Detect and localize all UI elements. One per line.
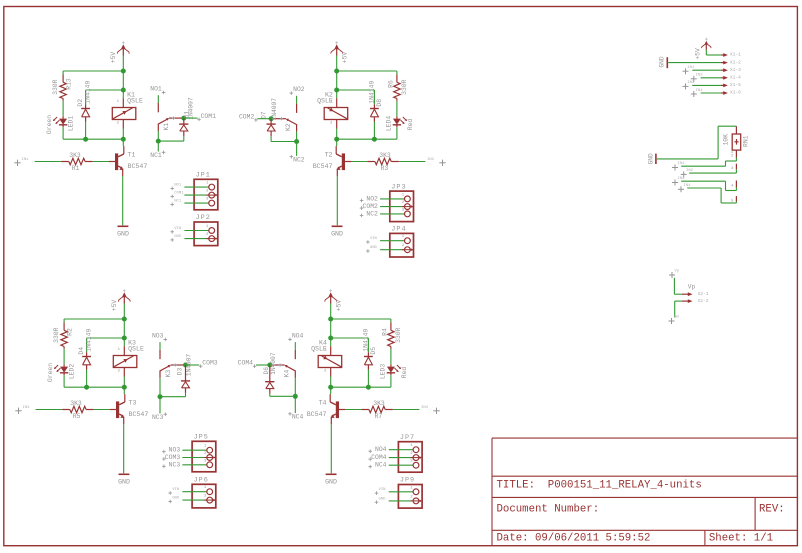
resistor R4 330R bbox=[382, 319, 403, 347]
svg-text:NC1: NC1 bbox=[174, 200, 182, 204]
svg-text:R5: R5 bbox=[73, 413, 81, 420]
svg-text:COM3: COM3 bbox=[165, 454, 181, 461]
svg-text:Red: Red bbox=[407, 119, 414, 131]
svg-text:IN2: IN2 bbox=[427, 158, 435, 162]
wire resistor to LED bbox=[390, 347, 392, 367]
svg-text:330R: 330R bbox=[401, 79, 408, 95]
wire resistor to LED bbox=[62, 99, 64, 119]
svg-text:R6: R6 bbox=[388, 80, 395, 88]
svg-text:+5V: +5V bbox=[336, 300, 343, 312]
svg-text:R7: R7 bbox=[375, 413, 383, 420]
junction bbox=[334, 137, 339, 142]
svg-text:1N4149: 1N4149 bbox=[368, 81, 375, 104]
svg-text:LED1: LED1 bbox=[67, 116, 74, 132]
svg-text:GND: GND bbox=[174, 235, 182, 239]
svg-text:NC2: NC2 bbox=[366, 210, 378, 217]
diode D3 1N4007 bbox=[176, 354, 192, 397]
junction bbox=[328, 385, 333, 390]
junction bbox=[121, 69, 126, 74]
svg-text:JP7: JP7 bbox=[400, 434, 415, 442]
wire coil to collector junction bbox=[330, 377, 332, 388]
wire collector bbox=[123, 387, 126, 402]
pin GND (X2) bbox=[669, 316, 680, 325]
junction bbox=[183, 363, 188, 368]
RN1 pin 3 bbox=[731, 164, 736, 171]
svg-text:330R: 330R bbox=[53, 327, 60, 343]
diode D4 1N4149 bbox=[78, 329, 93, 388]
pin 2 of JP4 bbox=[366, 244, 413, 253]
wire diode top bbox=[331, 337, 369, 339]
svg-text:R3: R3 bbox=[381, 165, 389, 172]
junction bbox=[328, 336, 333, 341]
wire NC lead bbox=[296, 125, 298, 156]
svg-text:GND: GND bbox=[118, 479, 130, 486]
wire resistor to LED bbox=[396, 99, 398, 119]
pin IN1 (X1) bbox=[683, 66, 721, 74]
relay coil K1 QSLE bbox=[112, 92, 143, 129]
wire COM bbox=[256, 364, 270, 366]
pin NC2 bbox=[290, 155, 305, 164]
svg-text:3K3: 3K3 bbox=[69, 152, 81, 159]
pin IN2 (X1) bbox=[691, 74, 721, 82]
svg-text:NC3: NC3 bbox=[152, 414, 164, 421]
svg-text:GND: GND bbox=[379, 497, 387, 501]
pin IN3 (RN1) bbox=[672, 177, 736, 191]
junction bbox=[158, 394, 163, 399]
wire NC lead bbox=[157, 124, 159, 151]
LED LED4 (Red) bbox=[386, 116, 415, 132]
svg-text:QSLE: QSLE bbox=[127, 98, 143, 105]
LED LED3 (Red) bbox=[380, 364, 409, 380]
diode D6 1N4007 bbox=[263, 352, 277, 396]
svg-text:COM4: COM4 bbox=[238, 360, 254, 367]
connector JP9 bbox=[398, 477, 422, 508]
pin 2 of JP1 bbox=[170, 190, 217, 199]
pin 1 of JP2 bbox=[170, 225, 214, 234]
svg-text:X2-2: X2-2 bbox=[698, 298, 709, 304]
relay coil K3 QSLE bbox=[113, 340, 144, 377]
svg-text:NO1: NO1 bbox=[150, 86, 162, 93]
pin IN4 bbox=[421, 406, 440, 414]
wire contact bottom bbox=[160, 396, 186, 398]
pin NO3 bbox=[152, 332, 167, 341]
svg-text:D8: D8 bbox=[376, 99, 383, 107]
wire top horizontal bbox=[64, 318, 124, 320]
svg-text:NO2: NO2 bbox=[293, 86, 305, 93]
svg-text:X1-5: X1-5 bbox=[730, 82, 741, 88]
ground (RN1) bbox=[647, 153, 656, 164]
transistor T3 BC547 bbox=[116, 400, 148, 418]
svg-text:D6: D6 bbox=[263, 367, 270, 375]
transistor T1 BC547 bbox=[115, 152, 147, 170]
svg-text:IN3: IN3 bbox=[687, 81, 695, 85]
svg-text:T2: T2 bbox=[325, 152, 333, 159]
wire +5V to junction bbox=[122, 56, 124, 72]
svg-text:3K3: 3K3 bbox=[379, 152, 391, 159]
junction bbox=[121, 137, 126, 142]
svg-text:T4: T4 bbox=[319, 400, 327, 407]
diode D2 1N4149 bbox=[77, 81, 92, 140]
svg-text:JP5: JP5 bbox=[194, 434, 209, 442]
svg-text:1N4007: 1N4007 bbox=[187, 97, 194, 120]
pin NO2 of JP3 bbox=[360, 193, 411, 202]
svg-text:NC1: NC1 bbox=[150, 152, 162, 159]
connector JP3 bbox=[390, 183, 414, 221]
connector JP6 bbox=[192, 477, 216, 508]
wire COM bbox=[186, 364, 200, 366]
transistor T4 BC547 bbox=[307, 400, 339, 418]
pin COM2 bbox=[239, 113, 258, 121]
svg-text:NC2: NC2 bbox=[293, 157, 305, 164]
wire GND to X1-2 bbox=[668, 62, 721, 64]
wire coil to collector junction bbox=[123, 377, 125, 388]
wire LED to bottom rail bbox=[390, 373, 392, 387]
pin X1-3 flag bbox=[721, 67, 741, 73]
wire collector bbox=[329, 387, 332, 402]
junction bbox=[267, 363, 272, 368]
pin X1-2 flag bbox=[721, 59, 741, 65]
+5V supply (unit 4) bbox=[325, 289, 343, 311]
svg-text:Sheet: 1/1: Sheet: 1/1 bbox=[709, 533, 773, 545]
junction bbox=[121, 88, 126, 93]
svg-text:330R: 330R bbox=[52, 79, 59, 95]
wire bottom rail bbox=[331, 386, 391, 388]
junction bbox=[334, 88, 339, 93]
pin NC4 bbox=[288, 412, 303, 421]
pin 1 of JP9 bbox=[375, 486, 419, 495]
wire diode top bbox=[337, 89, 375, 91]
ground (X1) bbox=[659, 56, 668, 68]
svg-text:1N4007: 1N4007 bbox=[271, 98, 278, 121]
junction bbox=[294, 139, 299, 144]
wire base bbox=[339, 409, 361, 411]
svg-text:X1-1: X1-1 bbox=[730, 52, 741, 58]
svg-text:D3: D3 bbox=[176, 368, 183, 376]
relay contact K4 bbox=[270, 342, 296, 377]
wire emitter down bbox=[122, 169, 124, 226]
pin 2 of JP9 bbox=[375, 495, 422, 504]
svg-text:NC4: NC4 bbox=[292, 414, 304, 421]
svg-text:JP4: JP4 bbox=[391, 226, 406, 234]
svg-text:1N4149: 1N4149 bbox=[362, 329, 369, 352]
pin Vp bbox=[669, 270, 680, 279]
wire COM bbox=[257, 118, 271, 120]
svg-text:+5V: +5V bbox=[694, 48, 701, 60]
diode D5 1N4149 bbox=[362, 329, 377, 388]
pin 1 of JP1 bbox=[170, 182, 214, 191]
svg-text:Green: Green bbox=[47, 363, 54, 382]
connector JP2 bbox=[194, 214, 218, 245]
svg-text:IN1: IN1 bbox=[22, 158, 30, 162]
svg-text:JP2: JP2 bbox=[196, 214, 211, 222]
+5V supply (unit 2) bbox=[331, 41, 349, 63]
svg-text:10K: 10K bbox=[722, 134, 729, 146]
svg-text:R4: R4 bbox=[382, 328, 389, 336]
ground bbox=[117, 226, 129, 237]
pin IN2 bbox=[427, 158, 446, 166]
wire +5V to junction bbox=[123, 304, 125, 320]
wire COM bbox=[184, 117, 198, 119]
pin NO3 of JP5 bbox=[162, 445, 213, 454]
svg-text:BC547: BC547 bbox=[313, 163, 333, 170]
svg-text:BC547: BC547 bbox=[307, 411, 327, 418]
wire contact bottom bbox=[158, 140, 184, 142]
svg-text:LED4: LED4 bbox=[386, 116, 393, 132]
pin IN3 bbox=[15, 406, 30, 414]
+5V supply (unit 1) bbox=[110, 41, 130, 63]
svg-text:VIN: VIN bbox=[370, 237, 378, 241]
transistor T2 BC547 bbox=[313, 152, 345, 170]
relay contact K2 bbox=[271, 96, 297, 131]
svg-text:NC3: NC3 bbox=[169, 461, 181, 468]
svg-text:RN1: RN1 bbox=[743, 135, 750, 147]
svg-text:QSLE: QSLE bbox=[128, 346, 144, 353]
junction bbox=[122, 336, 127, 341]
svg-text:Green: Green bbox=[46, 115, 53, 134]
svg-text:K1: K1 bbox=[163, 123, 170, 131]
wire coil to collector junction bbox=[122, 129, 124, 140]
pin NO4 of JP7 bbox=[368, 444, 419, 453]
resistor R5 3K3 bbox=[36, 400, 94, 420]
svg-text:1N4149: 1N4149 bbox=[86, 329, 93, 352]
pin X2-2 flag bbox=[682, 298, 709, 304]
resistor R3 3K3 bbox=[367, 152, 425, 172]
pin IN4 (X1) bbox=[691, 89, 721, 97]
diode D8 1N4149 bbox=[368, 81, 383, 140]
pin NC1 bbox=[150, 151, 165, 160]
pin NO2 bbox=[290, 86, 305, 95]
svg-text:X1-2: X1-2 bbox=[730, 59, 741, 65]
junction bbox=[181, 116, 186, 121]
wire emitter down bbox=[123, 417, 125, 474]
pin NO4 bbox=[288, 332, 303, 341]
ground bbox=[331, 226, 343, 237]
pin X1-4 flag bbox=[721, 75, 741, 81]
connector JP7 bbox=[398, 434, 422, 472]
svg-text:IN3: IN3 bbox=[678, 177, 686, 181]
pin COM3 bbox=[199, 360, 218, 368]
svg-text:IN1: IN1 bbox=[678, 162, 686, 166]
wire Vp to X2-1 bbox=[674, 278, 681, 294]
svg-text:NO2: NO2 bbox=[366, 195, 378, 202]
svg-text:IN1: IN1 bbox=[687, 66, 695, 70]
junction bbox=[83, 137, 88, 142]
RN1 pin 4 bbox=[731, 181, 736, 189]
wire top horizontal bbox=[337, 70, 397, 72]
svg-text:GND: GND bbox=[117, 231, 129, 238]
wire coil to collector junction bbox=[336, 129, 338, 140]
svg-text:VIN: VIN bbox=[174, 227, 182, 231]
svg-text:D4: D4 bbox=[78, 347, 85, 355]
svg-text:R1: R1 bbox=[72, 165, 80, 172]
svg-text:TITLE: P000151_11_RELAY_4-uni: TITLE: P000151_11_RELAY_4-units bbox=[497, 480, 702, 492]
svg-text:Date: 09/06/2011 5:59:52: Date: 09/06/2011 5:59:52 bbox=[497, 533, 651, 545]
svg-text:LED3: LED3 bbox=[380, 364, 387, 380]
svg-text:X1-4: X1-4 bbox=[730, 75, 741, 81]
RN1 pin 5 bbox=[731, 196, 736, 203]
svg-text:3K3: 3K3 bbox=[373, 400, 385, 407]
pin COM2 of JP3 bbox=[360, 201, 414, 210]
pin IN1 bbox=[14, 158, 29, 166]
svg-text:VIN: VIN bbox=[379, 488, 387, 492]
pin 2 of JP6 bbox=[168, 495, 215, 504]
relay coil K2 QSLE bbox=[317, 92, 348, 129]
diode D1 1N4007 bbox=[179, 97, 194, 141]
svg-text:T1: T1 bbox=[128, 152, 136, 159]
svg-text:GND: GND bbox=[370, 246, 378, 250]
pin IN1 (RN1) bbox=[672, 158, 736, 171]
wire to X2-2 bbox=[675, 301, 682, 317]
svg-text:JP1: JP1 bbox=[196, 172, 211, 180]
svg-text:D2: D2 bbox=[77, 99, 84, 107]
junction bbox=[84, 385, 89, 390]
wire contact bottom bbox=[270, 395, 296, 397]
pin COM3 of JP5 bbox=[162, 452, 216, 461]
wire LED to bottom rail bbox=[396, 125, 398, 139]
pin NC2 of JP3 bbox=[360, 208, 411, 217]
svg-text:COM2: COM2 bbox=[363, 203, 379, 210]
pin COM4 bbox=[238, 360, 257, 368]
pin 1 of JP6 bbox=[168, 486, 212, 495]
svg-text:IN4: IN4 bbox=[696, 89, 704, 93]
svg-text:Document Number:: Document Number: bbox=[497, 504, 600, 516]
svg-text:IN4: IN4 bbox=[684, 184, 692, 188]
svg-text:D5: D5 bbox=[370, 347, 377, 355]
wire NC lead bbox=[159, 371, 161, 413]
junction bbox=[269, 116, 274, 121]
svg-text:X1-6: X1-6 bbox=[730, 90, 741, 96]
wire bottom rail bbox=[64, 386, 124, 388]
connector JP4 bbox=[390, 226, 414, 257]
junction bbox=[293, 394, 298, 399]
ground bbox=[325, 474, 337, 485]
svg-text:330R: 330R bbox=[395, 327, 402, 343]
wire diode top bbox=[86, 89, 124, 91]
resistor network RN1 10K bbox=[722, 126, 749, 155]
+5V supply (unit 3) bbox=[111, 289, 131, 311]
svg-text:+5V: +5V bbox=[342, 52, 349, 64]
svg-text:NC4: NC4 bbox=[375, 462, 387, 469]
svg-text:GND: GND bbox=[331, 231, 343, 238]
wire bottom rail bbox=[337, 138, 397, 140]
pin 1 of JP4 bbox=[366, 235, 410, 244]
svg-text:GND: GND bbox=[659, 56, 666, 67]
svg-text:JP3: JP3 bbox=[391, 183, 406, 191]
svg-text:BC547: BC547 bbox=[129, 411, 149, 418]
svg-text:LED2: LED2 bbox=[68, 364, 75, 380]
wire contact bottom bbox=[271, 141, 297, 143]
RN1 pin 2 bbox=[731, 150, 736, 158]
resistor R6 330R bbox=[388, 71, 409, 99]
svg-text:REV:: REV: bbox=[759, 504, 785, 516]
svg-text:T3: T3 bbox=[129, 400, 137, 407]
wire +5V rail down bbox=[330, 319, 332, 346]
connector JP1 bbox=[194, 172, 218, 210]
ground bbox=[118, 474, 130, 485]
pin NC3 bbox=[152, 412, 167, 421]
pin NO1 bbox=[150, 86, 165, 95]
relay coil K4 QSLE bbox=[311, 340, 342, 377]
svg-text:X1-3: X1-3 bbox=[730, 67, 741, 73]
pin COM1 bbox=[197, 113, 216, 121]
wire resistor to LED bbox=[63, 347, 65, 367]
wire collector bbox=[335, 139, 338, 154]
pin 3 of JP1 bbox=[170, 198, 214, 207]
svg-text:K3: K3 bbox=[165, 370, 172, 378]
pin IN4 (RN1) bbox=[678, 184, 736, 203]
wire collector bbox=[122, 139, 125, 154]
svg-text:R13: R13 bbox=[65, 78, 72, 90]
svg-text:COM3: COM3 bbox=[202, 360, 218, 367]
junction bbox=[366, 385, 371, 390]
resistor R13 330R bbox=[52, 71, 73, 99]
title block bbox=[492, 438, 797, 546]
svg-text:1N4007: 1N4007 bbox=[270, 352, 277, 375]
svg-text:NO3: NO3 bbox=[152, 332, 164, 339]
svg-text:IN3: IN3 bbox=[23, 406, 31, 410]
junction bbox=[122, 385, 127, 390]
svg-text:BC547: BC547 bbox=[128, 163, 148, 170]
wire top horizontal bbox=[331, 318, 391, 320]
pin 2 of JP2 bbox=[170, 233, 217, 242]
pin NC3 of JP5 bbox=[162, 459, 213, 468]
relay contact K3 bbox=[160, 342, 186, 377]
svg-text:K2: K2 bbox=[285, 123, 292, 131]
wire LED to bottom rail bbox=[62, 125, 64, 139]
svg-text:+5V: +5V bbox=[110, 52, 117, 64]
svg-text:JP9: JP9 bbox=[400, 477, 415, 485]
wire top horizontal bbox=[63, 70, 123, 72]
LED LED2 (Green) bbox=[47, 363, 76, 382]
pin IN2 (RN1) bbox=[681, 169, 737, 178]
svg-text:NO3: NO3 bbox=[169, 447, 181, 454]
wire GND to RN1 common bbox=[657, 126, 737, 159]
wire +5V to junction bbox=[336, 56, 338, 72]
svg-text:IN4: IN4 bbox=[421, 406, 429, 410]
pin X1-6 flag bbox=[721, 90, 741, 96]
wire diode top bbox=[87, 337, 125, 339]
junction bbox=[156, 139, 161, 144]
svg-text:NO4: NO4 bbox=[375, 446, 387, 453]
svg-text:K4: K4 bbox=[284, 370, 291, 378]
svg-text:COM2: COM2 bbox=[239, 113, 255, 120]
LED LED1 (Green) bbox=[46, 115, 75, 134]
svg-text:+5V: +5V bbox=[111, 300, 118, 312]
wire base bbox=[345, 161, 367, 163]
resistor R1 3K3 bbox=[35, 152, 93, 172]
svg-text:GND: GND bbox=[325, 479, 337, 486]
wire +5V to junction bbox=[330, 304, 332, 320]
pin COM4 of JP7 bbox=[368, 452, 422, 461]
wire +5V to X1-1 bbox=[706, 50, 721, 55]
wire base bbox=[94, 409, 116, 411]
svg-text:Vp: Vp bbox=[688, 284, 696, 291]
svg-text:D7: D7 bbox=[260, 111, 267, 119]
svg-text:COM1: COM1 bbox=[201, 113, 217, 120]
junction bbox=[372, 137, 377, 142]
junction bbox=[334, 69, 339, 74]
resistor R7 3K3 bbox=[361, 400, 419, 420]
pin IN3 (X1) bbox=[683, 81, 721, 89]
svg-text:1N4149: 1N4149 bbox=[85, 81, 92, 104]
wire emitter down bbox=[330, 417, 332, 474]
svg-text:COM1: COM1 bbox=[174, 192, 184, 196]
wire +5V rail down bbox=[122, 71, 124, 98]
svg-text:NO1: NO1 bbox=[174, 184, 182, 188]
pin X1-1 flag bbox=[721, 52, 741, 58]
junction bbox=[328, 317, 333, 322]
wire bottom rail bbox=[63, 138, 123, 140]
